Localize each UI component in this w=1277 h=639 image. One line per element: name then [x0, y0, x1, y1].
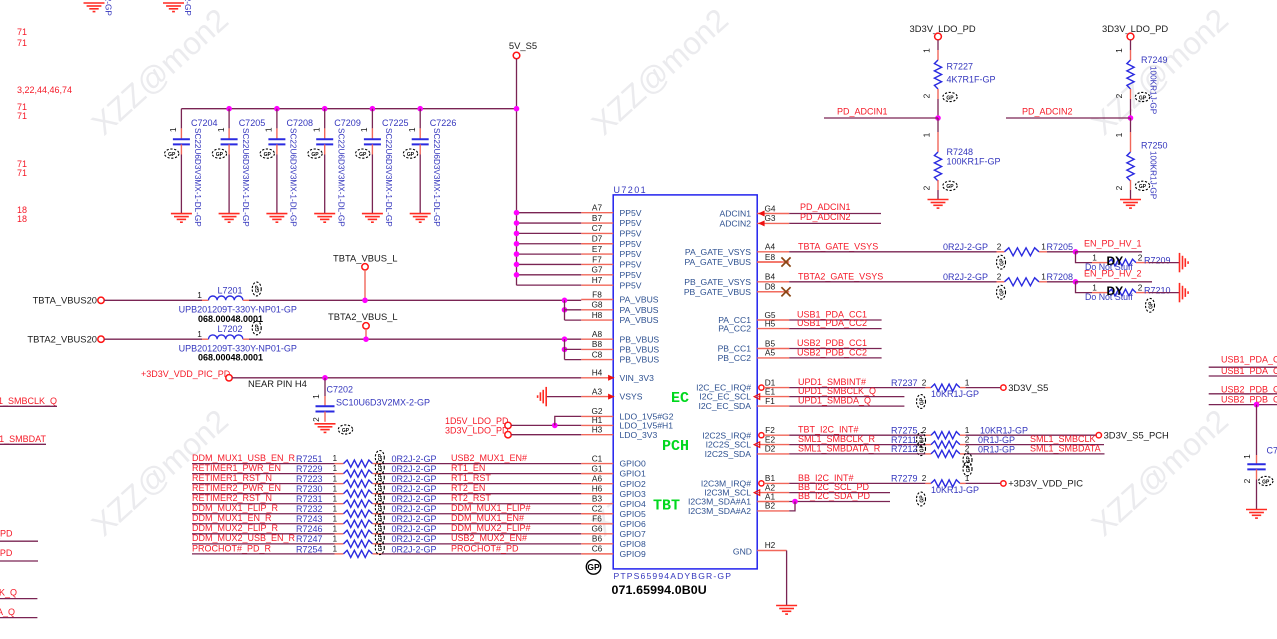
svg-text:DDM_MUX1_USB_EN_R: DDM_MUX1_USB_EN_R: [192, 453, 296, 463]
svg-text:C7204: C7204: [191, 118, 218, 128]
svg-text:71: 71: [17, 168, 27, 178]
svg-text:RETIMER1_PWR_EN: RETIMER1_PWR_EN: [192, 463, 281, 473]
svg-text:UPD1_SMBDA_Q: UPD1_SMBDA_Q: [0, 607, 15, 617]
svg-text:068.00048.0001: 068.00048.0001: [198, 314, 263, 324]
svg-text:TBTA2_VBUS_L: TBTA2_VBUS_L: [328, 311, 398, 322]
svg-text:F8: F8: [592, 289, 602, 299]
svg-text:USB2_MUX2_EN#: USB2_MUX2_EN#: [451, 533, 527, 543]
svg-text:1: 1: [332, 493, 337, 503]
svg-text:GPIO6: GPIO6: [620, 519, 646, 529]
svg-text:2: 2: [1138, 282, 1143, 292]
svg-text:1: 1: [332, 463, 337, 473]
svg-text:H2: H2: [765, 540, 776, 550]
svg-text:+3D3V_VDD_PIC_PD: +3D3V_VDD_PIC_PD: [141, 369, 231, 379]
svg-text:PB_VBUS: PB_VBUS: [620, 334, 660, 344]
svg-text:I2C2S_SDA: I2C2S_SDA: [705, 449, 752, 459]
svg-text:C7208: C7208: [287, 118, 314, 128]
svg-text:PCH: PCH: [662, 438, 689, 455]
svg-text:+3D3V_VDD_PIC: +3D3V_VDD_PIC: [1008, 478, 1083, 489]
svg-text:L7201: L7201: [218, 285, 243, 295]
svg-text:PTPS65994ADYBGR-GP: PTPS65994ADYBGR-GP: [614, 571, 733, 581]
svg-text:PROCHOT#_PD: PROCHOT#_PD: [451, 543, 519, 553]
svg-text:DDM_MUX2_FLIP#: DDM_MUX2_FLIP#: [451, 523, 531, 533]
svg-text:100KR1F-GP: 100KR1F-GP: [947, 156, 1001, 166]
svg-text:E8: E8: [765, 252, 776, 262]
svg-text:USB1_PDA_CC: USB1_PDA_CC: [1221, 366, 1277, 376]
svg-text:GP: GP: [378, 523, 384, 531]
svg-text:PB_CC2: PB_CC2: [718, 353, 752, 363]
svg-text:GP: GP: [311, 152, 319, 158]
svg-text:1: 1: [1114, 132, 1124, 137]
svg-text:GP: GP: [378, 463, 384, 471]
svg-text:A3: A3: [592, 386, 603, 396]
svg-text:R7212: R7212: [891, 444, 918, 454]
svg-text:B4: B4: [765, 272, 776, 282]
svg-text:GP: GP: [1262, 479, 1270, 485]
svg-text:2: 2: [1114, 93, 1124, 98]
svg-text:GP: GP: [378, 473, 384, 481]
svg-text:R7246: R7246: [296, 524, 323, 534]
svg-text:C7225: C7225: [382, 118, 409, 128]
svg-text:R7208: R7208: [1047, 272, 1074, 282]
svg-text:H3: H3: [592, 425, 603, 435]
svg-text:C7226: C7226: [430, 118, 457, 128]
svg-text:H7: H7: [592, 275, 603, 285]
svg-text:1: 1: [312, 127, 322, 132]
svg-text:R7243: R7243: [296, 514, 323, 524]
svg-text:GP: GP: [1148, 301, 1154, 309]
svg-text:1: 1: [197, 329, 202, 339]
svg-text:R7237: R7237: [891, 378, 918, 388]
svg-text:1: 1: [407, 127, 417, 132]
svg-text:GP: GP: [378, 483, 384, 491]
svg-text:RT2_EN: RT2_EN: [451, 483, 485, 493]
svg-text:3D3V_LDO_PD: 3D3V_LDO_PD: [445, 426, 509, 436]
svg-text:GP: GP: [587, 562, 600, 572]
svg-text:EC: EC: [671, 390, 689, 407]
svg-text:0R2J-2-GP: 0R2J-2-GP: [392, 494, 437, 504]
svg-text:PB_VBUS: PB_VBUS: [620, 355, 660, 365]
svg-text:1: 1: [359, 127, 369, 132]
svg-text:SC22U6D3V3MX-1-DL-GP: SC22U6D3V3MX-1-DL-GP: [241, 128, 250, 227]
svg-text:DDM_MUX2_FLIP_R: DDM_MUX2_FLIP_R: [192, 523, 279, 533]
svg-text:R7209: R7209: [1144, 256, 1171, 266]
svg-text:10KR1J-GP: 10KR1J-GP: [980, 425, 1028, 435]
svg-text:GND: GND: [733, 546, 752, 556]
svg-text:1: 1: [965, 377, 970, 387]
svg-text:USB1_PDA_CC2: USB1_PDA_CC2: [797, 318, 867, 328]
svg-text:PP5V: PP5V: [620, 229, 642, 239]
svg-text:2: 2: [1114, 185, 1124, 190]
svg-text:10KR1J-GP: 10KR1J-GP: [931, 485, 979, 495]
svg-text:A7: A7: [592, 203, 603, 213]
svg-text:GP: GP: [264, 152, 272, 158]
svg-text:GP: GP: [168, 152, 176, 158]
svg-text:PP5V: PP5V: [620, 208, 642, 218]
svg-text:DDM_MUX2_USB_EN_R: DDM_MUX2_USB_EN_R: [192, 533, 296, 543]
svg-text:C7: C7: [592, 223, 603, 233]
svg-text:-2-GP: -2-GP: [183, 0, 192, 16]
svg-text:PP5V: PP5V: [620, 239, 642, 249]
svg-text:0R2J-2-GP: 0R2J-2-GP: [392, 514, 437, 524]
svg-text:0R2J-2-GP: 0R2J-2-GP: [392, 504, 437, 514]
svg-text:F7: F7: [592, 254, 602, 264]
svg-text:USB2_PDB_CC2: USB2_PDB_CC2: [797, 348, 867, 358]
svg-text:GPIO5: GPIO5: [620, 509, 646, 519]
svg-text:A6: A6: [592, 473, 603, 483]
svg-text:GP: GP: [966, 465, 972, 473]
svg-text:I2C_EC_SCL: I2C_EC_SCL: [699, 392, 751, 402]
svg-text:2: 2: [922, 377, 927, 387]
svg-text:0R2J-2-GP: 0R2J-2-GP: [392, 474, 437, 484]
svg-text:3D3V_S5: 3D3V_S5: [1008, 382, 1048, 393]
svg-text:C6: C6: [592, 544, 603, 554]
svg-text:GP: GP: [919, 495, 925, 503]
svg-text:GP: GP: [255, 285, 261, 293]
svg-text:1: 1: [332, 513, 337, 523]
svg-text:I2C3M_SDA#A2: I2C3M_SDA#A2: [688, 506, 751, 516]
svg-text:ADCIN2: ADCIN2: [719, 219, 751, 229]
svg-text:C2: C2: [592, 504, 603, 514]
svg-text:5V_S5: 5V_S5: [509, 40, 537, 51]
svg-text:SML1_SMBDAT: SML1_SMBDAT: [0, 434, 46, 444]
svg-text:R7231: R7231: [296, 494, 323, 504]
svg-text:-2-GP: -2-GP: [104, 0, 113, 16]
svg-text:UPD1_SMBDA_Q: UPD1_SMBDA_Q: [798, 396, 871, 406]
svg-text:B7: B7: [592, 213, 603, 223]
svg-text:GPIO0: GPIO0: [620, 459, 646, 469]
svg-text:0R2J-2-GP: 0R2J-2-GP: [392, 524, 437, 534]
svg-text:R7205: R7205: [1047, 242, 1074, 252]
svg-text:C7209: C7209: [334, 118, 361, 128]
svg-text:GPIO9: GPIO9: [620, 549, 646, 559]
svg-text:R7254: R7254: [296, 544, 323, 554]
svg-text:ADCIN1: ADCIN1: [719, 209, 751, 219]
svg-text:I2C_EC_SDA: I2C_EC_SDA: [698, 401, 751, 411]
svg-text:1: 1: [332, 523, 337, 533]
svg-text:GP: GP: [378, 533, 384, 541]
svg-text:PA_CC2: PA_CC2: [718, 324, 751, 334]
svg-text:1: 1: [1041, 241, 1046, 251]
svg-text:BB_I2C_SDA_PD: BB_I2C_SDA_PD: [0, 548, 13, 558]
svg-text:B6: B6: [592, 534, 603, 544]
svg-text:R7232: R7232: [296, 504, 323, 514]
svg-text:GPIO3: GPIO3: [620, 489, 646, 499]
svg-text:PP5V: PP5V: [620, 218, 642, 228]
svg-text:GP: GP: [1139, 184, 1147, 190]
svg-text:RETIMER2_RST_N: RETIMER2_RST_N: [192, 493, 272, 503]
svg-text:0R2J-2-GP: 0R2J-2-GP: [392, 484, 437, 494]
svg-text:GP: GP: [919, 444, 925, 452]
svg-text:GP: GP: [378, 493, 384, 501]
svg-text:DDM_MUX1_FLIP_R: DDM_MUX1_FLIP_R: [192, 503, 279, 513]
svg-text:071.65994.0B0U: 071.65994.0B0U: [612, 583, 707, 597]
svg-text:0R2J-2-GP: 0R2J-2-GP: [392, 464, 437, 474]
svg-text:RETIMER1_RST_N: RETIMER1_RST_N: [192, 473, 272, 483]
svg-text:H5: H5: [765, 318, 776, 328]
svg-text:RT2_RST: RT2_RST: [451, 493, 491, 503]
svg-text:R7247: R7247: [296, 534, 323, 544]
svg-text:0R2J-2-GP: 0R2J-2-GP: [392, 454, 437, 464]
svg-text:E1: E1: [765, 386, 776, 396]
svg-text:0R2J-2-GP: 0R2J-2-GP: [943, 272, 988, 282]
svg-text:PA_VBUS: PA_VBUS: [620, 295, 659, 305]
svg-text:SC22U6D3V3MX-1-DL-GP: SC22U6D3V3MX-1-DL-GP: [384, 128, 393, 227]
svg-text:1: 1: [1092, 252, 1097, 262]
svg-text:PP5V: PP5V: [620, 260, 642, 270]
svg-text:2: 2: [997, 241, 1002, 251]
svg-text:3D3V_S5_PCH: 3D3V_S5_PCH: [1104, 430, 1169, 441]
svg-text:PD_ADCIN2: PD_ADCIN2: [800, 212, 851, 222]
svg-text:0R2J-2-GP: 0R2J-2-GP: [943, 242, 988, 252]
svg-text:PA_GATE_VBUS: PA_GATE_VBUS: [684, 257, 751, 267]
svg-text:DDM_MUX1_FLIP#: DDM_MUX1_FLIP#: [451, 503, 531, 513]
svg-text:GPIO2: GPIO2: [620, 479, 646, 489]
svg-text:2: 2: [1138, 252, 1143, 262]
svg-text:SC10U6D3V2MX-2-GP: SC10U6D3V2MX-2-GP: [336, 397, 430, 407]
svg-text:F1: F1: [765, 396, 775, 406]
svg-text:2: 2: [922, 93, 932, 98]
svg-text:H4: H4: [592, 368, 603, 378]
svg-text:SML1_SMBDATA_R: SML1_SMBDATA_R: [798, 443, 881, 453]
svg-text:C7205: C7205: [239, 118, 266, 128]
svg-text:USB2_PDB_CC: USB2_PDB_CC: [1221, 384, 1277, 394]
svg-text:BB_I2C_SCL_PD: BB_I2C_SCL_PD: [0, 529, 13, 539]
svg-text:GP: GP: [378, 503, 384, 511]
svg-text:1: 1: [264, 127, 274, 132]
svg-text:R7279: R7279: [891, 474, 918, 484]
svg-text:GP: GP: [919, 397, 925, 405]
svg-text:SC22U6D3V3MX-1-DL-GP: SC22U6D3V3MX-1-DL-GP: [289, 128, 298, 227]
svg-text:PP5V: PP5V: [620, 270, 642, 280]
svg-text:1: 1: [965, 473, 970, 483]
svg-text:GPIO1: GPIO1: [620, 469, 646, 479]
svg-text:1: 1: [216, 127, 226, 132]
svg-text:C1: C1: [592, 453, 603, 463]
svg-text:PROCHOT#_PD_R: PROCHOT#_PD_R: [192, 543, 272, 553]
svg-text:R7229: R7229: [296, 464, 323, 474]
svg-text:1: 1: [332, 533, 337, 543]
svg-text:GP: GP: [946, 184, 954, 190]
svg-text:RETIMER2_PWR_EN: RETIMER2_PWR_EN: [192, 483, 281, 493]
svg-text:H8: H8: [592, 310, 603, 320]
svg-text:D7: D7: [592, 234, 603, 244]
svg-text:B3: B3: [592, 494, 603, 504]
svg-text:0R2J-2-GP: 0R2J-2-GP: [392, 544, 437, 554]
svg-text:10KR1J-GP: 10KR1J-GP: [931, 389, 979, 399]
svg-text:SC22U6D3V3MX-1-DL-GP: SC22U6D3V3MX-1-DL-GP: [432, 128, 441, 227]
svg-text:SML1_SMBCLK_Q: SML1_SMBCLK_Q: [0, 396, 57, 406]
svg-text:G8: G8: [591, 300, 602, 310]
svg-text:F6: F6: [592, 514, 602, 524]
svg-text:Do Not Stuff: Do Not Stuff: [1085, 292, 1133, 302]
svg-text:TBTA_VBUS_L: TBTA_VBUS_L: [333, 252, 397, 263]
svg-text:EN_PD_HV_2: EN_PD_HV_2: [1084, 269, 1142, 279]
svg-text:100KR1J-GP: 100KR1J-GP: [1149, 151, 1158, 200]
svg-text:1: 1: [1242, 454, 1252, 459]
svg-text:18: 18: [17, 214, 27, 224]
svg-text:G4: G4: [764, 203, 775, 213]
svg-text:1: 1: [332, 453, 337, 463]
svg-text:PA_GATE_VSYS: PA_GATE_VSYS: [685, 247, 751, 257]
svg-text:PB_VBUS: PB_VBUS: [620, 345, 660, 355]
svg-text:1: 1: [332, 503, 337, 513]
svg-text:C72: C72: [1267, 445, 1277, 455]
svg-text:B8: B8: [592, 339, 603, 349]
svg-text:E7: E7: [592, 244, 603, 254]
svg-text:PD_ADCIN1: PD_ADCIN1: [800, 202, 851, 212]
svg-text:1: 1: [332, 473, 337, 483]
svg-text:1: 1: [922, 48, 932, 53]
svg-text:R7251: R7251: [296, 454, 323, 464]
svg-text:RT1_RST: RT1_RST: [451, 473, 491, 483]
svg-text:GP: GP: [407, 152, 415, 158]
svg-text:068.00048.0001: 068.00048.0001: [198, 353, 263, 363]
svg-text:71: 71: [17, 111, 27, 121]
svg-text:SC22U6D3V3MX-1-DL-GP: SC22U6D3V3MX-1-DL-GP: [337, 128, 346, 227]
svg-text:71: 71: [17, 27, 27, 37]
svg-text:1: 1: [168, 127, 178, 132]
svg-text:G6: G6: [591, 524, 602, 534]
svg-text:1: 1: [197, 290, 202, 300]
svg-text:PB_GATE_VSYS: PB_GATE_VSYS: [684, 277, 751, 287]
svg-text:GP: GP: [378, 543, 384, 551]
svg-text:SC22U6D3V3MX-1-DL-GP: SC22U6D3V3MX-1-DL-GP: [193, 128, 202, 227]
svg-text:GP: GP: [946, 95, 954, 101]
svg-text:USB2_MUX1_EN#: USB2_MUX1_EN#: [451, 453, 527, 463]
svg-text:A4: A4: [765, 242, 776, 252]
svg-text:RT1_EN: RT1_EN: [451, 463, 485, 473]
svg-text:BB_I2C_SDA_PD: BB_I2C_SDA_PD: [798, 491, 871, 501]
svg-text:GP: GP: [255, 324, 261, 332]
svg-text:GP: GP: [999, 288, 1005, 296]
svg-text:2: 2: [1242, 478, 1252, 483]
svg-text:71: 71: [17, 38, 27, 48]
svg-text:SML1_SMBDATA: SML1_SMBDATA: [1030, 444, 1101, 454]
svg-text:C7202: C7202: [327, 385, 354, 395]
svg-text:R7250: R7250: [1141, 141, 1168, 151]
svg-text:TBT: TBT: [653, 498, 680, 515]
svg-text:GP: GP: [342, 428, 350, 434]
svg-text:H6: H6: [592, 483, 603, 493]
svg-text:G3: G3: [764, 213, 775, 223]
svg-text:TBTA2_VBUS20: TBTA2_VBUS20: [27, 333, 97, 344]
svg-text:PA_VBUS: PA_VBUS: [620, 305, 659, 315]
svg-text:R7249: R7249: [1141, 55, 1168, 65]
svg-text:GPIO7: GPIO7: [620, 529, 646, 539]
svg-text:2: 2: [997, 271, 1002, 281]
svg-text:3D3V_LDO_PD: 3D3V_LDO_PD: [1102, 23, 1168, 34]
svg-text:R7227: R7227: [947, 62, 974, 72]
svg-text:USB1_PDA_CC: USB1_PDA_CC: [1221, 354, 1277, 364]
svg-text:GP: GP: [378, 513, 384, 521]
svg-text:G1: G1: [591, 463, 602, 473]
svg-text:D2: D2: [765, 444, 776, 454]
svg-text:C8: C8: [592, 349, 603, 359]
svg-text:GPIO4: GPIO4: [620, 499, 646, 509]
svg-text:PD_ADCIN1: PD_ADCIN1: [837, 106, 888, 116]
svg-text:GPIO8: GPIO8: [620, 539, 646, 549]
svg-text:A8: A8: [592, 329, 603, 339]
svg-text:D8: D8: [765, 282, 776, 292]
svg-text:0R1J-GP: 0R1J-GP: [978, 444, 1015, 454]
svg-text:1: 1: [1041, 271, 1046, 281]
svg-text:PP5V: PP5V: [620, 280, 642, 290]
svg-text:PA_VBUS: PA_VBUS: [620, 315, 659, 325]
svg-text:TBTA_GATE_VSYS: TBTA_GATE_VSYS: [798, 241, 878, 251]
svg-text:R7210: R7210: [1144, 286, 1171, 296]
svg-text:0R2J-2-GP: 0R2J-2-GP: [392, 534, 437, 544]
svg-text:NEAR PIN H4: NEAR PIN H4: [248, 378, 307, 389]
svg-text:3D3V_LDO_PD: 3D3V_LDO_PD: [910, 23, 976, 34]
svg-text:1: 1: [311, 394, 321, 399]
svg-text:1: 1: [332, 543, 337, 553]
svg-text:GP: GP: [378, 453, 384, 461]
svg-text:PP5V: PP5V: [620, 249, 642, 259]
svg-text:2: 2: [311, 417, 321, 422]
svg-text:PD_ADCIN2: PD_ADCIN2: [1022, 106, 1073, 116]
svg-text:EN_PD_HV_1: EN_PD_HV_1: [1084, 239, 1142, 249]
svg-text:1: 1: [1092, 282, 1097, 292]
svg-text:2: 2: [922, 185, 932, 190]
svg-text:TBTA_VBUS20: TBTA_VBUS20: [33, 295, 97, 306]
svg-text:1: 1: [922, 132, 932, 137]
svg-text:VIN_3V3: VIN_3V3: [620, 373, 655, 383]
svg-text:R7223: R7223: [296, 474, 323, 484]
svg-text:LDO_3V3: LDO_3V3: [620, 430, 658, 440]
svg-text:4K7R1F-GP: 4K7R1F-GP: [947, 75, 996, 85]
svg-text:DDM_MUX1_EN#: DDM_MUX1_EN#: [451, 513, 524, 523]
svg-text:1: 1: [332, 483, 337, 493]
svg-text:R7230: R7230: [296, 484, 323, 494]
svg-text:PB_GATE_VBUS: PB_GATE_VBUS: [684, 287, 751, 297]
svg-text:2: 2: [922, 473, 927, 483]
svg-text:2: 2: [965, 444, 970, 454]
svg-text:TBTA2_GATE_VSYS: TBTA2_GATE_VSYS: [798, 271, 883, 281]
svg-text:GP: GP: [1139, 95, 1147, 101]
svg-text:GP: GP: [999, 258, 1005, 266]
svg-text:G7: G7: [591, 265, 602, 275]
svg-text:U7201: U7201: [614, 185, 648, 195]
svg-text:B2: B2: [765, 501, 776, 511]
svg-text:VSYS: VSYS: [620, 392, 643, 402]
svg-text:100KR1J-GP: 100KR1J-GP: [1149, 66, 1158, 115]
svg-text:L7202: L7202: [218, 324, 243, 334]
svg-text:USB2_PDB_CC: USB2_PDB_CC: [1221, 395, 1277, 405]
svg-text:GP: GP: [359, 152, 367, 158]
svg-text:A5: A5: [765, 348, 776, 358]
svg-text:GP: GP: [216, 152, 224, 158]
svg-text:1: 1: [1114, 48, 1124, 53]
svg-text:DDM_MUX1_EN_R: DDM_MUX1_EN_R: [192, 513, 272, 523]
svg-text:3,22,44,46,74: 3,22,44,46,74: [17, 85, 72, 95]
svg-text:UPD1_SMBCLK_Q: UPD1_SMBCLK_Q: [0, 588, 17, 598]
